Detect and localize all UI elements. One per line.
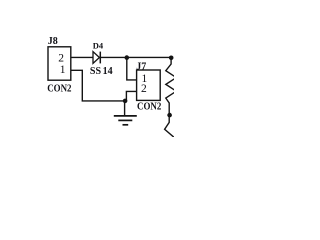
diode D4 [93,52,100,64]
wire node A down to J7 pin1 [127,58,137,80]
resistor R (upper, cut off at right edge) [166,58,177,115]
connector J8 [48,47,71,80]
svg-text:2: 2 [141,83,147,95]
connector J7 [137,70,161,100]
resistor R2 (lower, cut off at bottom right corner) [165,115,175,138]
wire node B up to J7 pin2 [126,91,136,101]
svg-text:2: 2 [58,52,64,64]
svg-text:1: 1 [60,64,66,76]
svg-text:CON2: CON2 [137,102,161,113]
svg-text:CON2: CON2 [47,83,71,94]
junction node B (ground node) [123,99,128,104]
wire diode cathode to right [100,56,171,58]
wire J8 pin2 to diode anode [71,56,93,58]
wire J8 pin1 down and right [71,70,126,101]
junction node C (top of resistor) [169,56,174,61]
junction node D (between resistors) [167,113,172,118]
svg-text:J8: J8 [48,36,58,47]
svg-text:D4: D4 [93,41,104,51]
svg-text:SS14: SS14 [90,66,113,77]
ground [114,101,137,125]
junction node A [125,55,130,60]
svg-text:J7: J7 [136,61,146,72]
